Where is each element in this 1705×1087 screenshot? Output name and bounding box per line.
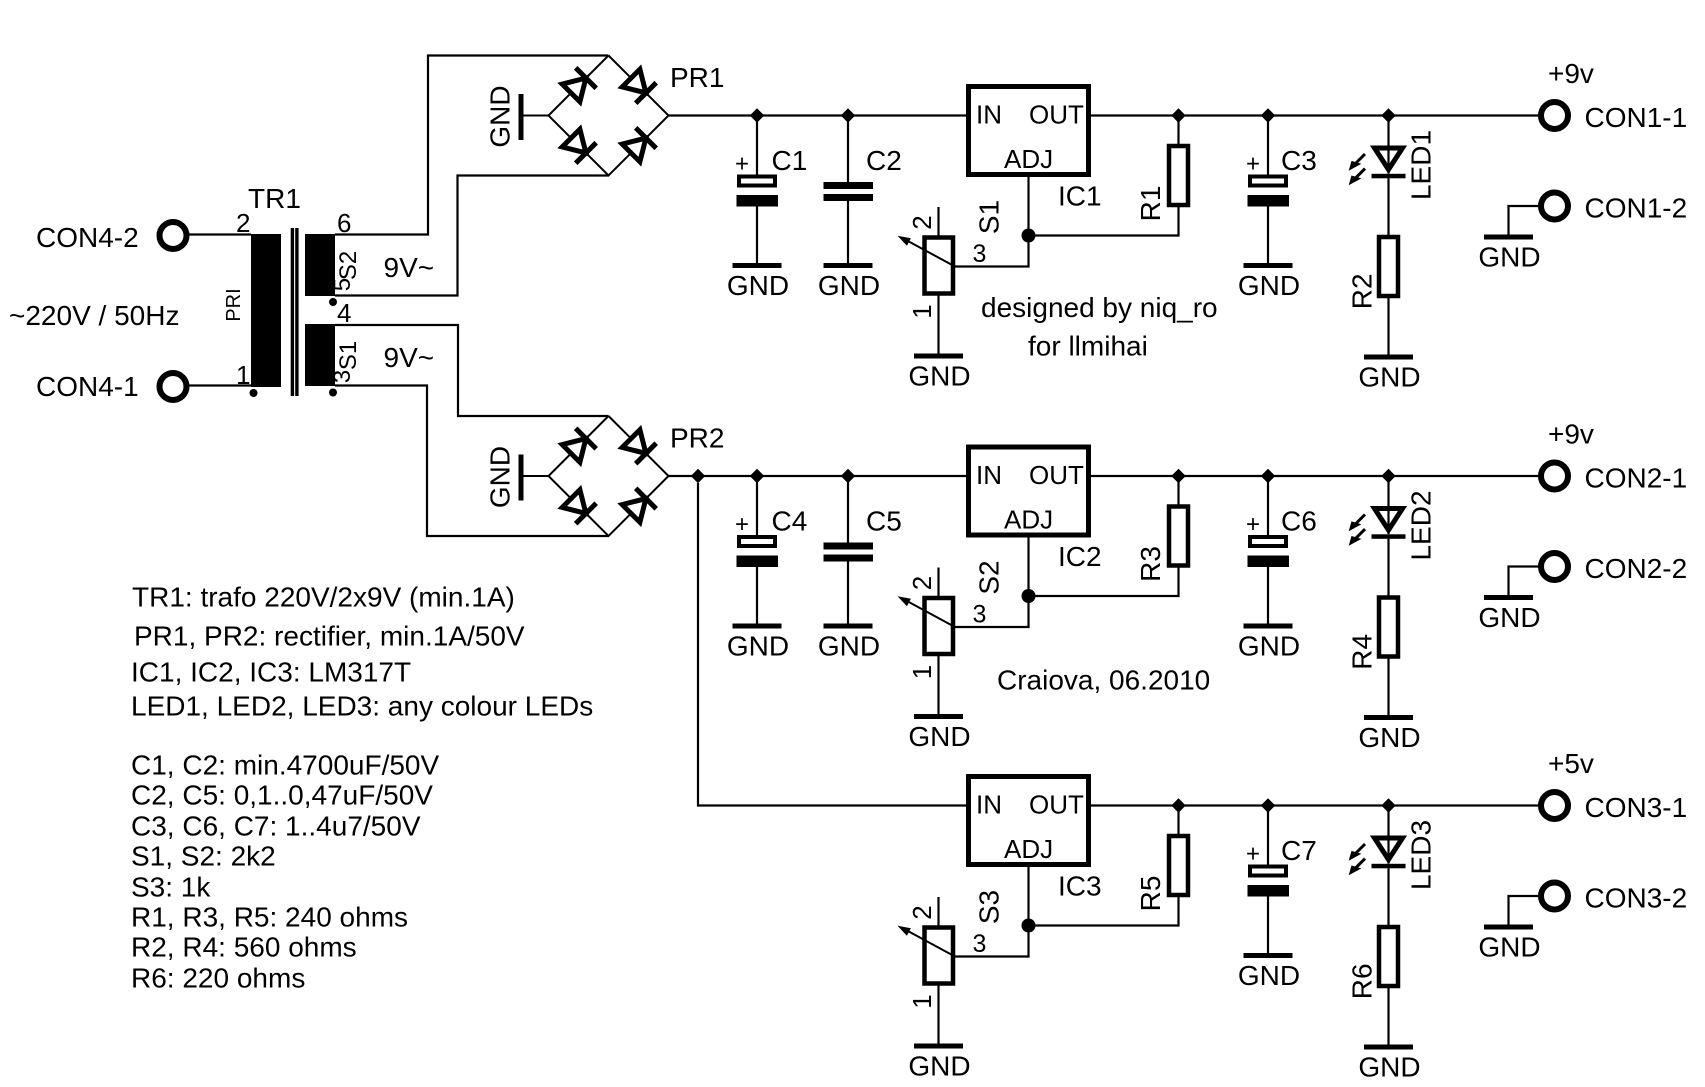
wire branch down to IC3 rail bbox=[698, 483, 966, 806]
svg-text:LED2: LED2 bbox=[1406, 490, 1437, 560]
wire C1 to ground bbox=[756, 207, 758, 264]
resistor R4 bbox=[1379, 598, 1398, 657]
svg-text:PRI: PRI bbox=[223, 288, 245, 321]
svg-text:1: 1 bbox=[907, 665, 937, 679]
ground under R6 bbox=[1358, 1045, 1420, 1083]
wire rail to LED3 bbox=[1387, 806, 1389, 864]
wire S2 pin 1 to ground bbox=[937, 656, 939, 714]
LED LED3 bbox=[1349, 838, 1406, 875]
svg-text:Craiova, 06.2010: Craiova, 06.2010 bbox=[997, 665, 1210, 696]
svg-text:LED3: LED3 bbox=[1406, 820, 1437, 890]
resistor R2 bbox=[1379, 237, 1398, 296]
wire PR2 + output to IC2 IN bbox=[669, 475, 967, 477]
svg-text:PR1, PR2: rectifier, min.1A/50: PR1, PR2: rectifier, min.1A/50V bbox=[134, 621, 525, 652]
svg-text:R5: R5 bbox=[1135, 876, 1166, 912]
wire C1 to rail bbox=[756, 116, 758, 175]
wire C2 to ground bbox=[847, 201, 849, 264]
svg-text:GND: GND bbox=[727, 270, 789, 301]
svg-text:designed by niq_ro: designed by niq_ro bbox=[981, 292, 1218, 323]
svg-text:3: 3 bbox=[973, 601, 987, 629]
ground under S2 bbox=[908, 714, 970, 752]
svg-text:C7: C7 bbox=[1281, 835, 1317, 866]
svg-text:TR1: TR1 bbox=[248, 183, 301, 214]
svg-text:GND: GND bbox=[1238, 960, 1300, 991]
wire S1 pin 2 stub bbox=[937, 207, 939, 236]
diode PR1 D2 (top-right) bbox=[622, 69, 656, 103]
svg-text:3: 3 bbox=[973, 240, 987, 268]
svg-text:S3: 1k: S3: 1k bbox=[131, 872, 211, 903]
wire R3 to ADJ node bbox=[1036, 568, 1179, 597]
ground under S1 bbox=[908, 354, 970, 392]
ground under C5 bbox=[818, 624, 880, 662]
potentiometer S2 bbox=[898, 596, 955, 654]
svg-text:GND: GND bbox=[1478, 602, 1540, 633]
wire CON4-2 to TR1 pin 2 bbox=[189, 233, 252, 235]
svg-text:GND: GND bbox=[485, 446, 516, 508]
svg-text:TR1: trafo 220V/2x9V (min.1A): TR1: trafo 220V/2x9V (min.1A) bbox=[132, 582, 515, 613]
wire LED3 to R6 bbox=[1387, 868, 1389, 927]
wire S2 wiper to ADJ node bbox=[954, 596, 1029, 627]
junction bbox=[1261, 798, 1275, 812]
ground under R2 bbox=[1358, 355, 1420, 393]
junction bbox=[1261, 469, 1275, 483]
wire C5 to rail bbox=[847, 476, 849, 543]
svg-text:OUT: OUT bbox=[1029, 100, 1084, 130]
capacitor C3 bbox=[1246, 151, 1289, 207]
wire R6 to ground bbox=[1387, 986, 1389, 1045]
svg-text:OUT: OUT bbox=[1029, 790, 1084, 820]
svg-text:for llmihai: for llmihai bbox=[1028, 331, 1148, 362]
bridge rectifier PR2 outline bbox=[549, 416, 669, 536]
wire C6 to ground bbox=[1267, 567, 1269, 624]
capacitor C2 bbox=[824, 182, 874, 201]
resistor R1 bbox=[1169, 146, 1188, 205]
svg-text:CON2-1: CON2-1 bbox=[1585, 463, 1688, 494]
svg-text:+: + bbox=[735, 151, 749, 178]
wire TR1 pin 6 to PR1 AC top bbox=[335, 56, 609, 235]
wire LED2 to R4 bbox=[1387, 539, 1389, 598]
diode PR2 D3 (left-bottom) bbox=[562, 490, 596, 524]
svg-text:CON3-2: CON3-2 bbox=[1585, 883, 1688, 914]
svg-text:PR2: PR2 bbox=[670, 423, 724, 454]
wire S3 wiper to ADJ node bbox=[954, 926, 1029, 957]
svg-text:R2, R4: 560 ohms: R2, R4: 560 ohms bbox=[131, 932, 357, 963]
svg-text:ADJ: ADJ bbox=[1004, 834, 1053, 864]
resistor R5 bbox=[1169, 836, 1188, 895]
wire CON3-2 to ground bbox=[1509, 896, 1540, 925]
ground under S3 bbox=[908, 1044, 970, 1082]
wire C6 to rail bbox=[1267, 476, 1269, 535]
svg-text:+: + bbox=[1246, 151, 1260, 178]
capacitor C7 bbox=[1246, 841, 1289, 897]
svg-text:C2: C2 bbox=[866, 145, 902, 176]
diode PR2 D4 (bottom-right) bbox=[622, 488, 656, 522]
svg-text:CON1-2: CON1-2 bbox=[1585, 193, 1688, 224]
svg-text:IC3: IC3 bbox=[1058, 871, 1102, 902]
wire C3 to ground bbox=[1267, 207, 1269, 264]
svg-text:2: 2 bbox=[907, 905, 937, 919]
wire rail to LED1 bbox=[1387, 116, 1389, 174]
junction bbox=[841, 108, 855, 122]
diode PR2 D2 (top-right) bbox=[622, 430, 656, 464]
voltage regulator IC3 (LM317T) bbox=[969, 777, 1089, 865]
ground at CON3-2 bbox=[1478, 925, 1540, 963]
connector CON1-1 bbox=[1541, 102, 1568, 129]
wire C2 to rail bbox=[847, 116, 849, 183]
wire R2 to ground bbox=[1387, 296, 1389, 355]
svg-text:9V~: 9V~ bbox=[384, 252, 435, 283]
svg-text:PR1: PR1 bbox=[670, 62, 724, 93]
junction (branch to IC3) bbox=[691, 469, 705, 483]
svg-text:C1, C2: min.4700uF/50V: C1, C2: min.4700uF/50V bbox=[131, 750, 439, 781]
svg-text:LED1: LED1 bbox=[1406, 130, 1437, 200]
svg-text:GND: GND bbox=[818, 631, 880, 662]
junction bbox=[1381, 798, 1395, 812]
svg-text:3: 3 bbox=[973, 930, 987, 958]
TR1 phase dot (S1) bbox=[329, 389, 337, 397]
svg-text:IN: IN bbox=[976, 460, 1002, 490]
svg-text:GND: GND bbox=[1238, 270, 1300, 301]
junction bbox=[1171, 798, 1185, 812]
svg-text:S2: S2 bbox=[974, 560, 1005, 594]
svg-text:GND: GND bbox=[908, 1051, 970, 1082]
ground under C7 bbox=[1238, 953, 1300, 991]
LED LED1 bbox=[1349, 148, 1406, 185]
svg-text:+: + bbox=[1246, 511, 1260, 538]
svg-text:S1: S1 bbox=[974, 200, 1005, 234]
transformer TR1 secondary winding S2 bbox=[305, 234, 335, 296]
voltage regulator IC2 (LM317T) bbox=[969, 447, 1089, 535]
svg-text:+5v: +5v bbox=[1548, 748, 1594, 779]
wire IC2 OUT to CON2-1 bbox=[1091, 475, 1539, 477]
svg-text:GND: GND bbox=[1478, 932, 1540, 963]
junction (ADJ node) bbox=[1022, 589, 1036, 603]
wire TR1 pin 5 to PR1 AC bottom bbox=[335, 176, 609, 296]
LED LED2 bbox=[1349, 509, 1406, 546]
wire S1 wiper to ADJ node bbox=[954, 236, 1029, 267]
wire CON1-2 to ground bbox=[1509, 206, 1540, 235]
wire C4 to rail bbox=[756, 476, 758, 535]
diode PR1 D1 (left-top) bbox=[562, 68, 596, 102]
svg-text:IN: IN bbox=[976, 100, 1002, 130]
svg-text:CON4-1: CON4-1 bbox=[36, 371, 139, 402]
wire IC1 OUT to CON1-1 bbox=[1091, 114, 1539, 116]
connector CON4-2 bbox=[160, 222, 187, 249]
connector CON2-2 bbox=[1541, 553, 1568, 580]
wire R1 to ADJ node bbox=[1036, 207, 1179, 236]
svg-text:GND: GND bbox=[908, 721, 970, 752]
svg-text:R2: R2 bbox=[1347, 273, 1378, 309]
connector CON3-2 bbox=[1541, 883, 1568, 910]
svg-text:1: 1 bbox=[907, 304, 937, 318]
connector CON2-1 bbox=[1541, 463, 1568, 490]
potentiometer S1 bbox=[898, 236, 955, 294]
junction bbox=[841, 469, 855, 483]
junction bbox=[1261, 108, 1275, 122]
ground under C1 bbox=[727, 263, 789, 301]
svg-text:GND: GND bbox=[1358, 362, 1420, 393]
svg-text:R6: R6 bbox=[1347, 963, 1378, 999]
ground at CON2-2 bbox=[1478, 595, 1540, 633]
voltage regulator IC1 (LM317T) bbox=[969, 87, 1089, 175]
svg-text:R3: R3 bbox=[1135, 546, 1166, 582]
wire TR1 pin 4 to PR2 AC top bbox=[335, 325, 609, 416]
junction bbox=[1171, 108, 1185, 122]
svg-text:GND: GND bbox=[1358, 1052, 1420, 1083]
connector CON3-1 bbox=[1541, 792, 1568, 819]
svg-text:5: 5 bbox=[329, 278, 356, 291]
svg-text:GND: GND bbox=[485, 85, 516, 147]
svg-text:CON2-2: CON2-2 bbox=[1585, 553, 1688, 584]
ground under C2 bbox=[818, 263, 880, 301]
wire C4 to ground bbox=[756, 567, 758, 624]
svg-text:IC2: IC2 bbox=[1058, 541, 1102, 572]
junction (ADJ node) bbox=[1022, 919, 1036, 933]
svg-text:+: + bbox=[1246, 841, 1260, 868]
wire S3 pin 2 stub bbox=[937, 897, 939, 926]
svg-text:R6: 220 ohms: R6: 220 ohms bbox=[131, 963, 305, 994]
wire C5 to ground bbox=[847, 562, 849, 625]
svg-text:S2: S2 bbox=[335, 251, 362, 280]
notes: component values bbox=[131, 582, 593, 994]
svg-text:CON1-1: CON1-1 bbox=[1585, 102, 1688, 133]
transformer TR1 primary winding bbox=[251, 234, 281, 387]
wire IC1 ADJ pin bbox=[1027, 176, 1029, 236]
ground under C6 bbox=[1238, 624, 1300, 662]
svg-text:IN: IN bbox=[976, 790, 1002, 820]
ground under C4 bbox=[727, 624, 789, 662]
potentiometer S3 bbox=[898, 926, 955, 984]
wire TR1 pin 3 to PR2 AC bottom bbox=[335, 386, 609, 537]
wire PR1 + output to IC1 IN bbox=[669, 114, 967, 116]
svg-text:+9v: +9v bbox=[1548, 419, 1594, 450]
svg-text:9V~: 9V~ bbox=[384, 342, 435, 373]
svg-text:C2, C5: 0,1..0,47uF/50V: C2, C5: 0,1..0,47uF/50V bbox=[131, 780, 433, 811]
ground at PR2 AC minus node bbox=[485, 446, 549, 508]
wire IC2 ADJ pin bbox=[1027, 537, 1029, 597]
diode PR2 D1 (left-top) bbox=[562, 428, 596, 462]
bridge rectifier PR1 outline bbox=[549, 56, 669, 176]
wire S2 pin 2 stub bbox=[937, 568, 939, 597]
svg-text:GND: GND bbox=[908, 361, 970, 392]
wire LED1 to R2 bbox=[1387, 178, 1389, 237]
resistor R6 bbox=[1379, 927, 1398, 986]
junction bbox=[750, 469, 764, 483]
capacitor C1 bbox=[735, 151, 778, 207]
wire rail to R5 bbox=[1177, 806, 1179, 835]
junction (ADJ node) bbox=[1022, 229, 1036, 243]
wire rail to LED2 bbox=[1387, 476, 1389, 534]
capacitor C4 bbox=[735, 511, 778, 567]
junction bbox=[1381, 108, 1395, 122]
wire R4 to ground bbox=[1387, 657, 1389, 716]
svg-text:S1: S1 bbox=[335, 341, 362, 370]
svg-text:IC1: IC1 bbox=[1058, 181, 1102, 212]
transformer TR1 secondary winding S1 bbox=[305, 324, 335, 386]
svg-text:R4: R4 bbox=[1347, 634, 1378, 670]
svg-text:IC1, IC2, IC3: LM317T: IC1, IC2, IC3: LM317T bbox=[131, 657, 411, 688]
resistor R3 bbox=[1169, 507, 1188, 566]
svg-text:CON4-2: CON4-2 bbox=[36, 222, 139, 253]
svg-text:+9v: +9v bbox=[1548, 58, 1594, 89]
junction bbox=[750, 108, 764, 122]
TR1 phase dot (S2) bbox=[329, 298, 337, 306]
svg-text:GND: GND bbox=[1358, 722, 1420, 753]
connector CON4-1 bbox=[160, 373, 187, 400]
svg-text:R1: R1 bbox=[1135, 186, 1166, 222]
svg-text:C6: C6 bbox=[1281, 506, 1317, 537]
svg-text:C1: C1 bbox=[772, 145, 808, 176]
ground under R4 bbox=[1358, 715, 1420, 753]
svg-text:C3: C3 bbox=[1281, 145, 1317, 176]
svg-text:~220V / 50Hz: ~220V / 50Hz bbox=[9, 300, 179, 331]
svg-text:C4: C4 bbox=[772, 506, 808, 537]
capacitor C6 bbox=[1246, 511, 1289, 567]
junction bbox=[1381, 469, 1395, 483]
capacitor C5 bbox=[824, 543, 874, 562]
wire IC3 ADJ pin bbox=[1027, 866, 1029, 926]
svg-text:4: 4 bbox=[337, 298, 351, 328]
wire rail to R1 bbox=[1177, 116, 1179, 145]
diode PR1 D3 (left-bottom) bbox=[562, 129, 596, 163]
svg-text:GND: GND bbox=[1478, 242, 1540, 273]
svg-text:ADJ: ADJ bbox=[1004, 144, 1053, 174]
wire CON2-2 to ground bbox=[1509, 567, 1540, 596]
svg-text:LED1, LED2, LED3: any colour L: LED1, LED2, LED3: any colour LEDs bbox=[131, 691, 593, 722]
TR1 phase dot (primary) bbox=[250, 389, 258, 397]
svg-text:OUT: OUT bbox=[1029, 460, 1084, 490]
ground at PR1 AC minus node bbox=[485, 85, 549, 147]
transformer TR1 core bbox=[292, 228, 297, 396]
svg-text:C5: C5 bbox=[866, 506, 902, 537]
wire C7 to rail bbox=[1267, 806, 1269, 865]
svg-text:+: + bbox=[735, 511, 749, 538]
svg-text:S1, S2: 2k2: S1, S2: 2k2 bbox=[131, 841, 276, 872]
ground at CON1-2 bbox=[1478, 235, 1540, 273]
svg-text:3: 3 bbox=[329, 370, 356, 383]
svg-text:S3: S3 bbox=[974, 890, 1005, 924]
diode PR1 D4 (bottom-right) bbox=[622, 128, 656, 162]
wire rail to R3 bbox=[1177, 476, 1179, 505]
junction bbox=[1171, 469, 1185, 483]
wire S1 pin 1 to ground bbox=[937, 296, 939, 354]
wire IC3 OUT to CON3-1 bbox=[1091, 804, 1539, 806]
wire R5 to ADJ node bbox=[1036, 897, 1179, 926]
svg-text:ADJ: ADJ bbox=[1004, 505, 1053, 535]
wire C7 to ground bbox=[1267, 897, 1269, 954]
connector CON1-2 bbox=[1541, 193, 1568, 220]
wire S3 pin 1 to ground bbox=[937, 986, 939, 1044]
svg-text:GND: GND bbox=[1238, 631, 1300, 662]
svg-text:1: 1 bbox=[907, 994, 937, 1008]
svg-text:CON3-1: CON3-1 bbox=[1585, 792, 1688, 823]
svg-text:GND: GND bbox=[818, 270, 880, 301]
ground under C3 bbox=[1238, 263, 1300, 301]
svg-text:GND: GND bbox=[727, 631, 789, 662]
wire CON4-1 to TR1 pin 1 bbox=[189, 384, 252, 386]
svg-text:R1, R3, R5: 240 ohms: R1, R3, R5: 240 ohms bbox=[131, 902, 408, 933]
wire C3 to rail bbox=[1267, 116, 1269, 175]
svg-text:C3, C6, C7: 1..4u7/50V: C3, C6, C7: 1..4u7/50V bbox=[131, 811, 421, 842]
svg-text:2: 2 bbox=[907, 215, 937, 229]
svg-text:2: 2 bbox=[907, 576, 937, 590]
